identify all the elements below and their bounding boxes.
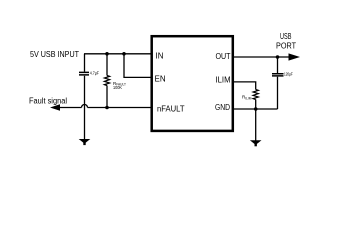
svg-text:100K: 100K <box>113 85 122 90</box>
svg-text:Fault signal: Fault signal <box>29 97 67 106</box>
svg-text:4.7µF: 4.7µF <box>90 71 99 76</box>
svg-text:RILIM: RILIM <box>242 95 252 101</box>
svg-text:IN: IN <box>156 51 164 60</box>
svg-text:USB: USB <box>280 32 291 41</box>
svg-text:nFAULT: nFAULT <box>157 105 185 114</box>
svg-text:GND: GND <box>215 103 230 112</box>
svg-text:OUT: OUT <box>216 52 231 61</box>
svg-text:5V USB INPUT: 5V USB INPUT <box>30 50 79 59</box>
svg-text:ILIM: ILIM <box>216 75 231 84</box>
svg-text:PORT: PORT <box>276 42 296 51</box>
svg-text:EN: EN <box>155 75 166 84</box>
svg-text:120µF: 120µF <box>284 71 293 76</box>
